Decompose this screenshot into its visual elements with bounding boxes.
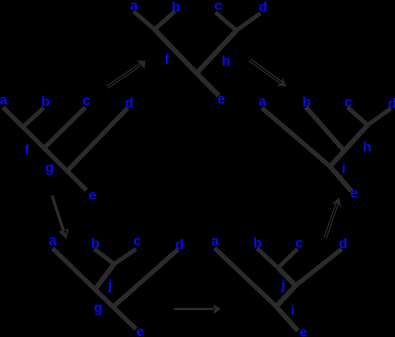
- bottom-right tree: wire leaf a to node i: [215, 248, 277, 307]
- svg-text:j: j: [280, 277, 285, 293]
- svg-text:a: a: [49, 232, 57, 248]
- svg-text:i: i: [342, 160, 346, 176]
- top tree: wire h edge and root edge to e: [197, 31, 237, 96]
- svg-text:j: j: [107, 277, 112, 293]
- bottom-left tree: wires leaves b,c to node j: [94, 249, 136, 264]
- svg-text:h: h: [222, 53, 231, 69]
- left tree: wire leaf c: [45, 108, 85, 148]
- top tree: wires leaves c,d to node h: [216, 13, 261, 31]
- right tree: wire leaf a to root junction: [262, 108, 330, 166]
- bottom-right tree: wire leaf d: [296, 249, 342, 286]
- svg-text:e: e: [89, 186, 97, 202]
- svg-text:f: f: [25, 142, 30, 158]
- svg-text:i: i: [291, 301, 295, 317]
- arrow: bottom-right tree to right tree: [325, 198, 341, 239]
- svg-text:a: a: [211, 232, 219, 248]
- svg-text:g: g: [94, 299, 103, 315]
- bottom-left tree: wire leaf d: [114, 250, 178, 307]
- bottom-right tree: wires leaves b,c to node j: [257, 248, 297, 268]
- svg-text:d: d: [259, 0, 268, 15]
- svg-text:e: e: [136, 323, 144, 337]
- svg-text:c: c: [133, 233, 141, 249]
- svg-text:f: f: [165, 51, 170, 67]
- svg-text:h: h: [363, 139, 372, 155]
- svg-text:e: e: [299, 324, 307, 337]
- right tree: wire internal chain h to root junction: [330, 125, 368, 166]
- arrow: left tree to bottom-left tree: [52, 196, 69, 240]
- svg-text:g: g: [45, 159, 54, 175]
- bottom-right tree: wire j edge to node i via d junction: [276, 268, 295, 307]
- arrow: bottom-left tree to bottom-right tree: [174, 304, 221, 313]
- arrow: top tree to right tree: [250, 60, 287, 87]
- svg-text:a: a: [0, 91, 8, 107]
- svg-text:c: c: [214, 0, 222, 13]
- svg-text:a: a: [259, 93, 267, 109]
- left tree: wire leaf b: [23, 108, 44, 127]
- bottom-left tree: wire j edge to main diagonal: [95, 264, 114, 289]
- left tree: wire main diagonal a to e: [3, 107, 87, 190]
- left tree: wire leaf d: [68, 108, 127, 170]
- svg-text:c: c: [83, 92, 91, 108]
- bottom-right tree: wire root edge to e: [276, 307, 298, 331]
- bottom-left tree: wire main diagonal a to e: [53, 248, 137, 329]
- top tree: wire f edge to root junction: [155, 30, 197, 74]
- svg-text:e: e: [350, 185, 358, 201]
- right tree: wires leaves c,d to node h: [347, 107, 391, 125]
- arrow: left tree to top tree: [107, 60, 145, 87]
- top tree: wires leaves a,b to node f: [134, 11, 175, 29]
- right tree: wire leaf b to node i: [306, 107, 345, 151]
- right tree: wire root edge to e: [330, 166, 351, 191]
